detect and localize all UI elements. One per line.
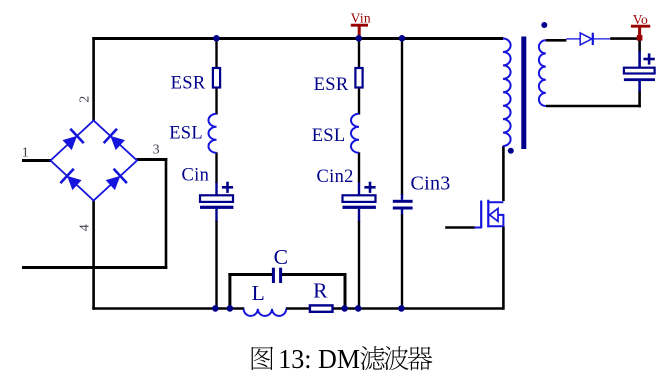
svg-text:R: R bbox=[313, 279, 328, 303]
junction bottom bus / bypass left bbox=[227, 305, 234, 312]
resistor ESR (branch2) bbox=[355, 68, 362, 88]
capacitor Cin3 bbox=[393, 200, 413, 203]
svg-text:Cin: Cin bbox=[182, 166, 210, 186]
mosfet channel bar bbox=[487, 200, 489, 228]
wire AC input pin1 stub bbox=[22, 159, 51, 162]
junction bottom bus / branch2 bbox=[355, 305, 362, 312]
output diode D5 bbox=[580, 33, 592, 45]
mosfet gate lead bbox=[475, 227, 482, 229]
wire output diode anode lead bbox=[566, 38, 580, 40]
bridge diode D1 (left to top) bbox=[63, 136, 78, 150]
wire AC return vertical bbox=[165, 158, 168, 269]
junction top bus / branch3 bbox=[399, 35, 406, 42]
wire Cout to output bottom bbox=[638, 92, 641, 108]
junction top bus / Vin branch2 bbox=[356, 35, 363, 42]
wire bypass left vertical bbox=[228, 273, 231, 309]
wire branch3 Cin3 to bottom bus bbox=[401, 215, 403, 309]
wire bridge top to bus bbox=[92, 37, 95, 121]
inductor L bbox=[244, 309, 287, 316]
wire output diode cathode lead bbox=[593, 38, 610, 40]
svg-text:2: 2 bbox=[78, 96, 93, 103]
caption chinese glyph 图 bbox=[252, 347, 274, 371]
wire branch2 Cin2 lead top bbox=[358, 183, 360, 196]
junction top bus / branch1 bbox=[213, 35, 220, 42]
wire bridge bottom to ground bus bbox=[92, 200, 95, 310]
wire branch1 Cin lead top bbox=[215, 183, 217, 196]
svg-text:L: L bbox=[252, 281, 265, 305]
transformer primary polarity dot bbox=[508, 148, 514, 154]
mosfet drain lead bbox=[487, 201, 503, 203]
wire bypass right vertical bbox=[344, 273, 347, 309]
bridge rectifier outline bbox=[51, 121, 138, 201]
wire pin3 stub bbox=[137, 158, 168, 161]
capacitor Cin2 bbox=[343, 195, 376, 202]
wire bottom bus right bbox=[286, 307, 504, 310]
mosfet body arrow bbox=[490, 209, 499, 222]
svg-text:Vin: Vin bbox=[351, 10, 371, 25]
capacitor Cin bbox=[200, 195, 233, 202]
inductor ESL (branch1) bbox=[209, 114, 217, 153]
wire bypass top left of C bbox=[228, 273, 272, 276]
caption chinese glyph 器 bbox=[407, 347, 432, 371]
junction bottom bus / branch3 bbox=[398, 305, 405, 312]
caption chinese glyph 波 bbox=[384, 346, 409, 370]
mosfet source lead bbox=[487, 225, 503, 227]
junction bottom bus / bypass right bbox=[341, 305, 348, 312]
bridge diode D2 (right to top) bbox=[110, 136, 125, 150]
junction bottom bus / branch1 bbox=[212, 305, 219, 312]
resistor ESR (branch1) bbox=[213, 68, 220, 88]
bridge diode D4 (bottom to right) bbox=[106, 176, 121, 190]
svg-text:ESR: ESR bbox=[171, 74, 206, 94]
inductor ESL (branch2) bbox=[351, 114, 359, 153]
power symbol Vo bbox=[631, 25, 650, 28]
svg-text:ESL: ESL bbox=[169, 124, 203, 144]
svg-text:C: C bbox=[274, 245, 289, 269]
wire branch2 bus to ESR bbox=[358, 37, 360, 69]
svg-text:1: 1 bbox=[22, 146, 29, 161]
caption chinese glyph 滤 bbox=[360, 346, 384, 370]
transformer secondary winding bbox=[539, 40, 546, 106]
wire branch3 Cin3 lead bottom bbox=[401, 210, 403, 216]
wire branch2 ESR to ESL bbox=[358, 87, 360, 115]
wire diode to Vo corner bbox=[610, 37, 641, 40]
svg-text:4: 4 bbox=[78, 224, 93, 231]
wire bypass top right of C bbox=[282, 273, 346, 276]
wire branch1 Cin to bottom bus bbox=[215, 221, 217, 309]
wire branch2 Cin2 to bottom bus bbox=[358, 221, 360, 309]
capacitor C bbox=[272, 268, 275, 283]
wire secondary top bbox=[546, 39, 567, 42]
wire bottom bus left bbox=[92, 307, 244, 310]
wire branch1 Cin lead bottom bbox=[215, 209, 217, 223]
svg-text:ESL: ESL bbox=[312, 126, 346, 146]
wire drain to primary bbox=[502, 146, 505, 201]
svg-text:Vo: Vo bbox=[633, 12, 648, 27]
transformer primary winding bbox=[503, 39, 511, 147]
transformer core bbox=[521, 37, 526, 150]
wire branch2 ESL to Cin2 bbox=[358, 152, 360, 183]
wire Cout lead bottom bbox=[638, 81, 641, 93]
transformer secondary polarity dot bbox=[541, 22, 547, 28]
bridge diode D3 (bottom to left) bbox=[67, 176, 82, 190]
wire source to bottom bus bbox=[502, 226, 505, 310]
wire branch3 bus to Cin3 bbox=[401, 37, 403, 195]
wire AC return horizontal bbox=[22, 266, 167, 269]
svg-text:Cin3: Cin3 bbox=[411, 172, 451, 194]
power symbol Vin bbox=[351, 24, 368, 27]
wire top bus bbox=[92, 37, 503, 40]
mosfet body lead bbox=[498, 215, 503, 226]
svg-text:3: 3 bbox=[153, 142, 160, 157]
wire branch2 Cin2 lead bottom bbox=[358, 209, 360, 223]
wire gate stub bbox=[445, 226, 474, 229]
mosfet gate bar bbox=[480, 201, 482, 229]
wire branch1 ESL to Cin bbox=[215, 152, 217, 183]
svg-text:ESR: ESR bbox=[314, 75, 349, 95]
wire branch1 ESR to ESL bbox=[215, 87, 217, 115]
svg-text:13: DM: 13: DM bbox=[278, 343, 360, 374]
resistor R bbox=[310, 305, 333, 311]
wire output bottom bbox=[546, 105, 641, 108]
wire Vo corner down bbox=[638, 37, 641, 51]
capacitor Cout bbox=[624, 68, 655, 74]
svg-text:Cin2: Cin2 bbox=[317, 167, 354, 187]
wire branch1 bus to ESR bbox=[215, 37, 217, 69]
wire branch3 Cin3 lead top bbox=[401, 194, 403, 200]
wire Cout lead top bbox=[638, 51, 641, 68]
